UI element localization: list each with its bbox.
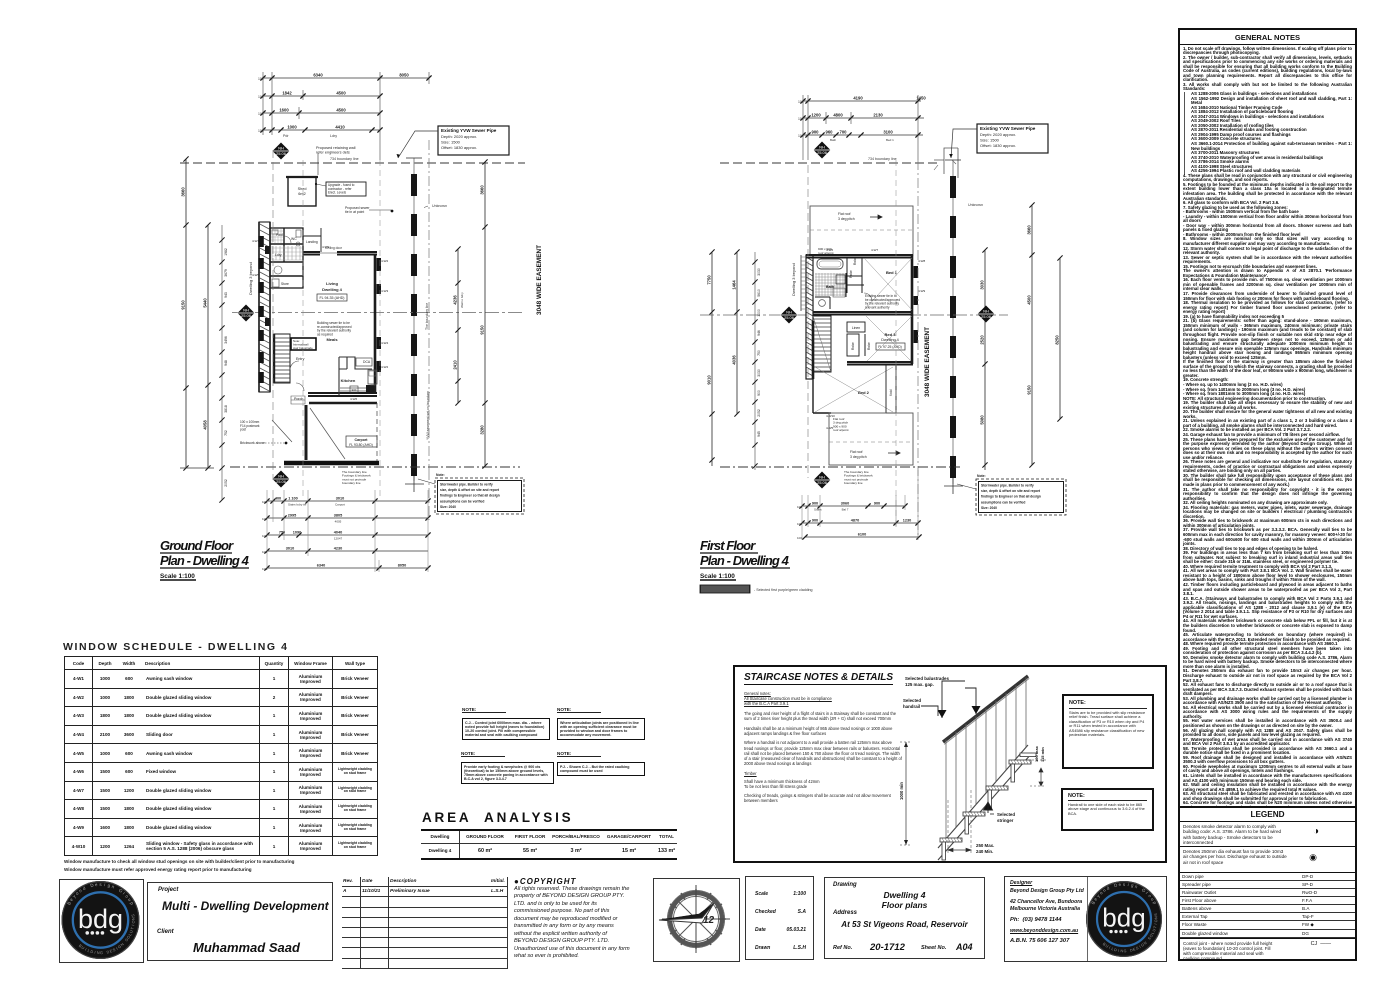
boundary bottom (first) <box>720 466 960 468</box>
svg-text:100: 100 <box>797 505 802 509</box>
svg-text:NH: NH <box>278 145 284 150</box>
shed note box <box>315 182 366 196</box>
svg-text:2052: 2052 <box>757 409 761 417</box>
svg-text:4500: 4500 <box>1027 295 1032 305</box>
survey diamond left (first) <box>781 307 798 324</box>
svg-text:as required: as required <box>317 332 333 336</box>
svg-text:900: 900 <box>812 502 818 506</box>
svg-text:100: 100 <box>797 522 802 526</box>
designer box <box>1004 876 1167 962</box>
bdg logo box <box>59 879 144 963</box>
svg-text:Plan - Dwelling 4: Plan - Dwelling 4 <box>700 553 790 568</box>
svg-text:900: 900 <box>874 502 880 506</box>
boundary text (first bottom) <box>844 470 873 485</box>
svg-text:FL 94.35 (AHD): FL 94.35 (AHD) <box>319 296 344 300</box>
svg-text:Ldry: Ldry <box>275 253 282 257</box>
stormwater note box (ground) <box>418 473 524 514</box>
svg-text:First Floor: First Floor <box>700 538 756 553</box>
window schedule table <box>64 656 378 856</box>
compass box <box>653 878 740 962</box>
ground floor building <box>258 222 381 404</box>
svg-text:Size: 2040: Size: 2040 <box>440 505 456 509</box>
svg-text:assumptions can be verified: assumptions can be verified <box>981 500 1025 504</box>
svg-text:9150: 9150 <box>480 325 485 335</box>
staircase title <box>744 672 893 685</box>
svg-text:8250: 8250 <box>1055 335 1060 345</box>
svg-text:Linen: Linen <box>852 326 860 330</box>
svg-text:4-W6: 4-W6 <box>826 248 833 252</box>
ground floor title <box>160 538 250 580</box>
svg-text:4410: 4410 <box>335 125 345 130</box>
svg-text:900: 900 <box>812 519 818 523</box>
svg-text:4005: 4005 <box>335 520 342 524</box>
svg-text:100: 100 <box>258 77 264 81</box>
svg-text:4500: 4500 <box>336 108 346 113</box>
svg-text:4-W9: 4-W9 <box>918 289 925 293</box>
legend <box>1178 806 1357 961</box>
svg-text:2130: 2130 <box>873 113 883 118</box>
svg-text:Bal 7: Bal 7 <box>842 508 849 512</box>
svg-text:DCA: DCA <box>363 360 371 364</box>
staircase note box 1 <box>1062 694 1154 769</box>
svg-text:1000: 1000 <box>757 309 761 317</box>
svg-text:Offset: 1830 approx.: Offset: 1830 approx. <box>980 143 1016 148</box>
unknown label (ground) <box>424 204 447 208</box>
svg-text:NH: NH <box>278 473 284 478</box>
svg-text:100: 100 <box>262 517 267 521</box>
existing sewer pipe note box (first) <box>949 124 1048 158</box>
svg-text:Shed: Shed <box>298 187 307 191</box>
svg-text:NH: NH <box>983 308 989 313</box>
svg-text:Stormwater pipe. Builder to ve: Stormwater pipe. Builder to verify <box>440 483 493 487</box>
svg-text:100: 100 <box>262 534 267 538</box>
left dimension lines (first) <box>707 249 762 470</box>
right dimension lines (first) <box>980 202 1063 470</box>
unknown label (first) <box>968 203 983 207</box>
survey diamond top (first) <box>814 142 831 159</box>
svg-text:946: 946 <box>757 330 761 336</box>
svg-text:Dwelling 4: Dwelling 4 <box>322 287 343 292</box>
drawing box <box>824 877 985 959</box>
svg-text:Size: 1500: Size: 1500 <box>441 140 461 145</box>
staircase detail drawing <box>899 676 1046 860</box>
svg-text:1600: 1600 <box>279 108 289 113</box>
svg-text:1090: 1090 <box>293 531 301 535</box>
survey diamond bottom (ground) <box>273 471 290 488</box>
area analysis table <box>421 829 677 860</box>
svg-text:Kitchen: Kitchen <box>341 378 356 383</box>
svg-text:Scale 1:100: Scale 1:100 <box>700 573 735 580</box>
svg-text:Void: Void <box>889 389 893 396</box>
svg-text:Brickwork above: Brickwork above <box>240 441 265 445</box>
svg-text:6340: 6340 <box>317 564 325 568</box>
compass north arrow <box>659 885 730 953</box>
svg-text:3805: 3805 <box>334 514 342 518</box>
svg-text:findings to Engineer on that a: findings to Engineer on that all design <box>981 495 1041 499</box>
stormwater note box (first) <box>957 474 1066 515</box>
svg-text:900: 900 <box>757 390 761 396</box>
svg-text:8050: 8050 <box>399 73 409 78</box>
svg-text:2410: 2410 <box>453 360 458 370</box>
note box PJ <box>557 742 645 776</box>
existing sewer pipe note box (ground) <box>397 126 510 158</box>
svg-text:400: 400 <box>275 497 281 501</box>
svg-text:3 deg pitch: 3 deg pitch <box>838 217 855 221</box>
svg-text:Store: Store <box>281 282 289 286</box>
svg-text:- Selected first purple/green: - Selected first purple/green cladding <box>754 588 813 592</box>
svg-text:5440: 5440 <box>203 298 208 308</box>
svg-text:4190: 4190 <box>853 96 863 101</box>
svg-text:3030: 3030 <box>757 369 761 377</box>
svg-text:relevant authority: relevant authority <box>865 305 890 309</box>
svg-text:NH: NH <box>819 474 825 479</box>
svg-text:Proposed retaining wall: Proposed retaining wall <box>316 146 356 150</box>
svg-text:Size: 2040: Size: 2040 <box>981 506 997 510</box>
svg-text:Flat roof: Flat roof <box>850 450 862 454</box>
svg-text:Ground Floor: Ground Floor <box>160 538 234 553</box>
svg-text:700: 700 <box>840 130 848 135</box>
svg-text:refer engineers dets: refer engineers dets <box>316 150 350 154</box>
svg-text:Carport: Carport <box>335 503 345 507</box>
svg-text:NH: NH <box>243 307 249 312</box>
svg-text:NH: NH <box>819 144 825 149</box>
shed <box>286 177 318 206</box>
svg-text:1982: 1982 <box>224 248 228 256</box>
first floor title <box>700 538 790 580</box>
general notes column <box>1178 28 1357 961</box>
svg-text:Robe: Robe <box>849 270 853 278</box>
svg-text:Note:: Note: <box>436 473 445 477</box>
sewer pipe black bar (first) <box>944 160 963 494</box>
svg-text:5610: 5610 <box>757 289 761 297</box>
svg-text:3010: 3010 <box>286 547 294 551</box>
roof hook top right (first) <box>934 148 958 178</box>
svg-text:tie in at point: tie in at point <box>345 210 364 214</box>
centerline (first) <box>700 314 1008 316</box>
svg-text:752: 752 <box>224 430 228 436</box>
note box articulation <box>557 698 645 740</box>
svg-text:943: 943 <box>224 292 228 298</box>
svg-text:Flat roof: Flat roof <box>838 212 850 216</box>
ground floor top dimension lines <box>258 72 432 160</box>
svg-text:4040: 4040 <box>334 531 342 535</box>
svg-text:Pdr: Pdr <box>283 134 289 138</box>
svg-text:3 deg pitch: 3 deg pitch <box>850 455 867 459</box>
svg-text:Depth: 2020 approx.: Depth: 2020 approx. <box>980 132 1016 137</box>
svg-text:Porch: Porch <box>294 397 303 401</box>
svg-text:Depth: 2020 approx.: Depth: 2020 approx. <box>441 134 477 139</box>
dwelling 3 beyond label <box>248 262 253 295</box>
svg-text:YVW easement set on boundary: YVW easement set on boundary <box>426 391 430 440</box>
svg-text:Offset: 1830 approx.: Offset: 1830 approx. <box>441 145 477 150</box>
svg-text:3496: 3496 <box>224 336 228 344</box>
svg-text:100: 100 <box>258 129 264 133</box>
svg-text:25.06: 25.06 <box>241 313 252 318</box>
svg-text:2052: 2052 <box>224 479 228 487</box>
post + brickwork labels <box>240 420 287 445</box>
svg-text:5080: 5080 <box>980 415 985 425</box>
svg-text:25.06: 25.06 <box>817 480 828 485</box>
svg-text:Robe: Robe <box>853 257 857 265</box>
area analysis title <box>422 810 573 825</box>
svg-text:948: 948 <box>224 360 228 366</box>
svg-text:6340: 6340 <box>313 73 323 78</box>
svg-text:734 boundary line: 734 boundary line <box>868 157 897 161</box>
svg-text:Living: Living <box>326 281 338 286</box>
svg-text:4230: 4230 <box>334 547 342 551</box>
svg-text:4-W2: 4-W2 <box>381 365 388 369</box>
svg-text:Plan - Dwelling 4: Plan - Dwelling 4 <box>160 553 250 568</box>
carport <box>272 403 379 463</box>
survey diamond left <box>238 305 255 322</box>
svg-text:Stairs bdry tie: Stairs bdry tie <box>288 503 307 507</box>
svg-text:100: 100 <box>798 100 804 104</box>
svg-text:6m2: 6m2 <box>298 192 305 196</box>
svg-text:Elect. Levels: Elect. Levels <box>328 191 346 195</box>
bdg logo designer box <box>1086 881 1162 957</box>
svg-text:Robe: Robe <box>851 342 855 350</box>
window schedule footnotes <box>64 858 294 874</box>
svg-text:Existing YVW Sewer Pipe: Existing YVW Sewer Pipe <box>980 126 1036 131</box>
svg-text:6100: 6100 <box>858 533 866 537</box>
svg-text:2520: 2520 <box>980 335 985 345</box>
svg-text:2995: 2995 <box>288 514 296 518</box>
svg-text:Stormwater pipe. Builder to ve: Stormwater pipe. Builder to verify <box>981 484 1034 488</box>
dwelling 3 beyond label (first) <box>791 263 796 296</box>
boundary line top (first) <box>720 157 940 163</box>
svg-text:9010: 9010 <box>707 375 712 385</box>
sewer pipe black bar (ground) <box>405 158 424 492</box>
note box CJ <box>462 698 550 740</box>
svg-text:4058: 4058 <box>203 420 208 430</box>
note box footings <box>461 742 554 784</box>
svg-text:4-W7: 4-W7 <box>871 248 878 252</box>
svg-text:Pwd: Pwd <box>276 233 283 237</box>
first floor building <box>801 248 925 465</box>
svg-text:size, depth & offset on site a: size, depth & offset on site and report <box>981 489 1041 493</box>
left dimension lines (ground) <box>180 156 228 502</box>
svg-text:Bed 2: Bed 2 <box>858 390 870 395</box>
3048 wide easement label (first) <box>924 327 931 397</box>
svg-text:100: 100 <box>258 95 264 99</box>
vertical boundary dashes (ground) <box>273 140 429 520</box>
svg-text:900: 900 <box>352 388 357 392</box>
right dimension lines (ground) <box>453 159 488 468</box>
svg-text:4-W2: 4-W2 <box>381 259 388 263</box>
svg-text:3280: 3280 <box>480 425 485 435</box>
svg-text:findings to Engineer so that a: findings to Engineer so that all design <box>440 494 500 498</box>
svg-text:Wall to bdry: Wall to bdry <box>460 292 464 308</box>
svg-text:Carport: Carport <box>355 438 369 442</box>
svg-text:4-W9: 4-W9 <box>322 245 329 249</box>
svg-text:3100: 3100 <box>883 130 893 135</box>
copyright block <box>514 877 630 961</box>
svg-text:Dwelling 3 beyond: Dwelling 3 beyond <box>248 262 253 295</box>
svg-text:roof a/point: roof a/point <box>833 428 849 432</box>
svg-text:100: 100 <box>258 112 264 116</box>
svg-text:3010: 3010 <box>336 497 344 501</box>
svg-text:4-W3: 4-W3 <box>381 289 388 293</box>
svg-text:Unknown: Unknown <box>432 204 447 208</box>
svg-text:3660: 3660 <box>181 187 186 197</box>
boundary rotated labels (ground right) <box>425 303 430 440</box>
svg-text:boundary line: boundary line <box>844 481 863 485</box>
svg-text:Stairs: Stairs <box>814 508 822 512</box>
revision table <box>342 877 508 969</box>
boundary line top (dashed) <box>180 157 525 163</box>
svg-text:Robe: Robe <box>867 342 871 350</box>
upper flat roof (first) <box>810 206 913 255</box>
svg-text:3030: 3030 <box>980 280 985 290</box>
boundary dashes vertical (first) <box>808 160 918 535</box>
svg-text:post: post <box>240 428 246 432</box>
svg-text:100: 100 <box>797 536 802 540</box>
retaining wall note <box>316 146 356 175</box>
window tags (ground) <box>252 239 388 401</box>
svg-text:9150: 9150 <box>1027 385 1032 395</box>
svg-text:1200: 1200 <box>811 113 821 118</box>
centerline (ground) <box>232 312 525 314</box>
svg-text:1842: 1842 <box>282 91 292 96</box>
svg-text:Size: 1500: Size: 1500 <box>980 138 1000 143</box>
survey diamond top <box>273 143 290 160</box>
svg-text:Bath: Bath <box>830 138 837 142</box>
svg-text:945: 945 <box>757 431 761 437</box>
svg-text:8050: 8050 <box>398 564 406 568</box>
svg-text:25.06: 25.06 <box>981 314 992 319</box>
svg-text:7750: 7750 <box>707 275 712 285</box>
svg-text:3818: 3818 <box>224 405 228 413</box>
svg-text:25.06: 25.06 <box>276 151 287 156</box>
3048 wide easement label (ground) <box>536 245 543 315</box>
svg-text:4236: 4236 <box>453 295 458 305</box>
svg-text:4-W8: 4-W8 <box>918 259 925 263</box>
project box <box>147 882 333 961</box>
svg-text:3030: 3030 <box>757 268 761 276</box>
survey diamond right (first) <box>978 306 995 323</box>
svg-text:9150: 9150 <box>181 300 186 310</box>
svg-text:750: 750 <box>757 350 761 356</box>
svg-text:100: 100 <box>262 567 267 571</box>
svg-text:Entry: Entry <box>296 357 305 361</box>
svg-text:1 100: 1 100 <box>288 497 298 501</box>
svg-text:Ldry: Ldry <box>330 134 337 138</box>
survey diamond bottom (first) <box>814 472 831 489</box>
svg-text:4800: 4800 <box>833 113 843 118</box>
svg-text:900: 900 <box>812 130 820 135</box>
svg-text:Existing YVW Sewer Pipe: Existing YVW Sewer Pipe <box>441 128 497 133</box>
svg-text:1000: 1000 <box>287 125 297 130</box>
staircase left text <box>744 691 902 803</box>
svg-text:734 boundary line: 734 boundary line <box>330 157 359 161</box>
bottom dimension rows (first) <box>797 470 922 540</box>
scale box <box>745 876 814 960</box>
svg-text:NH: NH <box>786 309 792 314</box>
cladding legend swatch <box>700 585 813 593</box>
svg-text:WC: WC <box>291 237 297 241</box>
first floor top dimension lines <box>798 95 926 160</box>
svg-text:Scale 1:100: Scale 1:100 <box>160 573 195 580</box>
svg-text:FL 93.80 (AHD): FL 93.80 (AHD) <box>349 443 373 447</box>
svg-text:25.06: 25.06 <box>817 150 828 155</box>
svg-text:3048 WIDE EASEMENT: 3048 WIDE EASEMENT <box>924 327 931 397</box>
bottom dimension rows (ground) <box>262 490 431 572</box>
svg-text:100: 100 <box>798 117 804 121</box>
bdg logo bottom-left <box>62 881 140 959</box>
svg-text:The boundary line: The boundary line <box>425 303 429 330</box>
svg-text:4-W5: 4-W5 <box>252 273 259 277</box>
svg-text:4-W4: 4-W4 <box>381 341 388 345</box>
svg-text:Meals: Meals <box>326 337 338 342</box>
svg-text:1464: 1464 <box>732 280 737 290</box>
svg-text:Dwelling 3 beyond: Dwelling 3 beyond <box>791 263 796 296</box>
svg-text:size, depth & offset on site a: size, depth & offset on site and report <box>440 488 500 492</box>
svg-text:4500: 4500 <box>336 91 346 96</box>
staircase note box 2 <box>1061 788 1154 831</box>
svg-text:Landing: Landing <box>306 240 318 244</box>
svg-text:3060: 3060 <box>841 502 849 506</box>
svg-text:4-W6: 4-W6 <box>350 397 357 401</box>
svg-text:100: 100 <box>262 550 267 554</box>
svg-text:Note:: Note: <box>977 474 986 478</box>
svg-text:Bed 1: Bed 1 <box>886 138 894 142</box>
boundary line bottom (ground) <box>230 467 520 485</box>
svg-text:100: 100 <box>798 134 804 138</box>
svg-text:3679: 3679 <box>224 269 228 277</box>
svg-text:12047: 12047 <box>334 537 343 541</box>
svg-text:25.06: 25.06 <box>784 315 795 320</box>
staircase notes box border <box>733 665 1167 863</box>
proposed sewer tie text <box>345 206 393 214</box>
svg-text:4870: 4870 <box>851 519 859 523</box>
svg-text:960: 960 <box>826 130 834 135</box>
window schedule title <box>63 641 289 653</box>
svg-text:Unknown: Unknown <box>968 203 983 207</box>
svg-text:3048 WIDE EASEMENT: 3048 WIDE EASEMENT <box>536 245 543 315</box>
svg-text:boundary line: boundary line <box>342 481 361 485</box>
svg-text:4-W1: 4-W1 <box>252 239 259 243</box>
svg-text:4036: 4036 <box>732 355 737 365</box>
svg-text:25.06: 25.06 <box>276 479 287 484</box>
svg-text:1230: 1230 <box>903 519 911 523</box>
svg-text:stair balustrade: stair balustrade <box>293 346 313 350</box>
svg-text:100: 100 <box>262 500 267 504</box>
svg-text:3660: 3660 <box>480 185 485 195</box>
svg-text:3660: 3660 <box>1027 225 1032 235</box>
svg-text:assumptions can be verified: assumptions can be verified <box>440 499 484 503</box>
